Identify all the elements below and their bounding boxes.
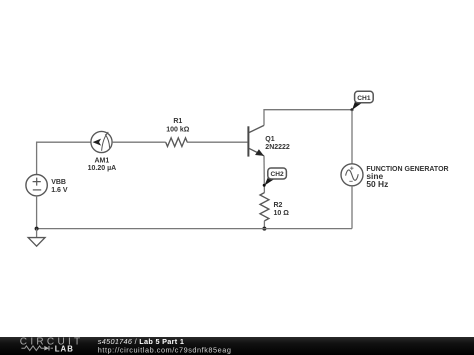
function generator label sine 50 Hz <box>366 166 448 189</box>
wire AM1 to R1 <box>112 141 166 143</box>
svg-text:CH1: CH1 <box>357 95 371 102</box>
wire collector up and across to CH1 node <box>264 110 352 126</box>
AM1 label 10.20 uA <box>88 157 117 172</box>
R2 label 10 Ohm <box>274 202 290 217</box>
svg-text:10.20 µA: 10.20 µA <box>88 165 117 172</box>
wire CH1 node down to function generator <box>351 110 353 164</box>
svg-text:R2: R2 <box>274 202 283 209</box>
wire emitter down to R2 <box>263 156 265 193</box>
R1 label 100 kOhm <box>166 118 190 133</box>
svg-text:2N2222: 2N2222 <box>265 144 290 151</box>
svg-text:Q1: Q1 <box>265 136 274 143</box>
wire function generator to bottom rail <box>351 186 353 229</box>
svg-text:VBB: VBB <box>51 179 66 186</box>
svg-text:http://circuitlab.com/c79sdnfk: http://circuitlab.com/c79sdnfk85eag <box>98 345 232 354</box>
svg-text:R1: R1 <box>173 118 182 125</box>
wire R1 to Q1 base <box>187 141 247 143</box>
ground <box>28 229 45 247</box>
svg-text:1.6 V: 1.6 V <box>51 187 68 194</box>
ammeter AM1 <box>91 131 112 152</box>
svg-text:CIRCUIT: CIRCUIT <box>20 337 84 348</box>
wire R2 bottom to rail <box>263 221 265 229</box>
junction at R2 bottom <box>262 227 266 231</box>
resistor R1 <box>166 138 188 147</box>
svg-text:LAB: LAB <box>55 345 74 354</box>
svg-text:10 Ω: 10 Ω <box>274 210 290 217</box>
function generator <box>341 164 363 186</box>
wire VBB bottom to ground node <box>36 196 38 229</box>
svg-text:50 Hz: 50 Hz <box>366 179 388 189</box>
CircuitLab logo squiggle resistor and diode <box>21 346 53 351</box>
svg-text:CH2: CH2 <box>270 171 284 178</box>
svg-text:100 kΩ: 100 kΩ <box>166 126 190 133</box>
bottom rail wire <box>37 228 352 230</box>
wire left rail top: VBB to top row corner <box>37 142 91 174</box>
probe CH1 <box>351 91 374 111</box>
resistor R2 <box>260 193 269 221</box>
junction at ground node <box>35 227 39 231</box>
Q1 label 2N2222 <box>265 136 290 151</box>
VBB label 1.6 V <box>51 179 68 194</box>
probe CH2 <box>263 168 287 187</box>
svg-text:AM1: AM1 <box>95 157 110 164</box>
transistor Q1 <box>248 125 264 156</box>
voltage source VBB <box>26 175 47 196</box>
